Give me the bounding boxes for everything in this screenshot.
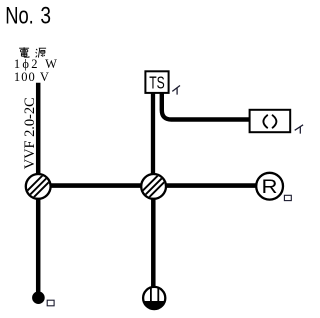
junction box J2 (middle, hatched circle) (141, 174, 166, 199)
lamp receptacle R circle (256, 173, 283, 200)
label イ (beside TS) (172, 86, 180, 95)
svg-text:TS: TS (149, 73, 165, 93)
wall outlet circle (143, 287, 165, 309)
junction box J1 (left, hatched circle) (26, 174, 51, 199)
wire: power feed down to junction box J1 (36, 83, 41, 186)
ceiling rose ( ) catch contacts (263, 115, 276, 127)
svg-text:No.: No. (5, 1, 34, 29)
wire: TS left pin down to J2 (151, 93, 155, 186)
wall outlet blade slots (150, 288, 152, 307)
ceiling rose (angular) box (250, 110, 291, 132)
svg-text:VVF 2.0-2C: VVF 2.0-2C (22, 97, 38, 169)
timer switch TS box (145, 71, 168, 93)
svg-text:3: 3 (40, 1, 51, 29)
wire: J2 down to wall outlet (151, 186, 156, 289)
wire: J1 to J2 horizontal bus (38, 183, 154, 188)
power source label kanji 電 (19, 47, 29, 57)
power source label kanji 源 (36, 48, 47, 57)
wall outlet wall-side fill (144, 301, 165, 309)
svg-text:R: R (262, 176, 278, 198)
label イ (beside ceiling rose) (295, 125, 303, 134)
svg-text:100 V: 100 V (14, 70, 49, 84)
wire: J1 down to switch (36, 187, 41, 293)
label ロ (beside R) (284, 195, 291, 200)
wire: TS right pin curving to ceiling rose (162, 93, 250, 120)
label ロ (beside switch) (47, 300, 54, 306)
wire: J2 to lamp receptacle R (154, 183, 262, 188)
switch ロ (filled dot) (32, 291, 45, 304)
